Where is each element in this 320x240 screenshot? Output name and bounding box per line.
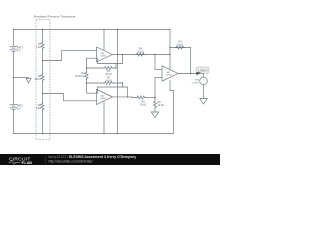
footer bar [0, 154, 220, 165]
wire R4 branch [170, 47, 191, 49]
svg-text:1 kΩ: 1 kΩ [36, 107, 41, 110]
resistor R6 [153, 100, 156, 108]
op-amp OA3 [162, 66, 178, 81]
dashed transducer box [36, 20, 50, 140]
svg-text:VM1: VM1 [195, 80, 200, 82]
resistor R3 [136, 53, 146, 56]
wire long vertical supply [117, 30, 119, 134]
wire R9 to bottom rail [42, 111, 44, 134]
svg-text:http://circuitlab.com/c6nb38e/: http://circuitlab.com/c6nb38e/ [49, 159, 93, 163]
ground GND3 [200, 99, 207, 105]
resistor R8 [41, 74, 44, 82]
op-amp OA2 [97, 89, 113, 104]
wire OA1 inverting from Rg node [87, 58, 97, 68]
wire mid supply to BAT2 [13, 78, 15, 105]
svg-text:10 kΩ: 10 kΩ [140, 103, 147, 106]
svg-text:LM324: LM324 [101, 56, 107, 58]
wire left column top [13, 30, 15, 47]
wire Rg bottom node to R2 [87, 82, 104, 84]
wire R6 to ground [154, 108, 156, 112]
wire bottom rail [14, 133, 174, 135]
wire ground stub mid supply [14, 77, 29, 79]
wire OA2 output [112, 96, 136, 99]
ground GND1 [26, 79, 31, 84]
svg-text:5 V: 5 V [17, 50, 21, 53]
svg-text:1 kΩ: 1 kΩ [36, 46, 41, 49]
svg-text:LAB: LAB [24, 161, 32, 165]
svg-text:5 V: 5 V [17, 108, 21, 111]
wire OA2 inverting from Rg node [87, 83, 97, 93]
wire node B to OA3 non-inverting [155, 77, 162, 97]
resistor R1 [104, 66, 113, 69]
wire transducer top drop [42, 30, 44, 42]
wire to voltmeter [203, 74, 205, 78]
wire R7 to R8 [42, 50, 44, 74]
svg-text:−: − [98, 58, 99, 60]
footer divider [45, 156, 47, 164]
wire OA3 V+ [169, 30, 171, 70]
wire OA1 feedback detour [98, 55, 123, 64]
svg-text:1.768 V: 1.768 V [191, 83, 199, 85]
svg-text:Simulated Pressure Transducer: Simulated Pressure Transducer [34, 15, 76, 19]
wire node B to R6 [154, 98, 156, 101]
voltmeter VM1 [200, 77, 208, 85]
annotation badge 1.768 V [196, 67, 209, 76]
wire OA2 feedback detour [98, 87, 128, 97]
wire OA3 output [178, 73, 204, 75]
wire OA3 V- [170, 81, 174, 134]
svg-text:20.55 kΩ: 20.55 kΩ [75, 75, 85, 78]
svg-text:−: − [98, 93, 99, 95]
junction dots [13, 29, 192, 135]
wire Rg bottom [86, 80, 88, 84]
battery BAT1 [10, 46, 17, 51]
op-amp OA1 [97, 47, 113, 62]
wire tap upper [43, 51, 97, 61]
wire below BAT2 [13, 110, 15, 134]
wire OA1 V+ [103, 30, 105, 51]
wire R8 to R9 [42, 82, 44, 103]
wire R5 to node B [146, 97, 156, 99]
wire R1 to feedback [113, 64, 116, 69]
wire Rg top [86, 68, 88, 72]
resistor R2 [104, 81, 113, 84]
wire node A to OA3 inverting [155, 55, 162, 70]
svg-text:10 kΩ: 10 kΩ [158, 104, 165, 107]
svg-text:kerry12123 / ELE3503 Assesment: kerry12123 / ELE3503 Assesment 3 Kerry O… [49, 155, 137, 159]
svg-text:1.768 V: 1.768 V [198, 69, 208, 73]
CircuitLab logo [9, 156, 33, 165]
wire top rail [14, 29, 171, 31]
wire R4 to output [190, 48, 192, 74]
svg-text:LM324: LM324 [166, 74, 172, 76]
wire below BAT1 [13, 52, 15, 78]
resistor R5 [136, 96, 146, 99]
svg-text:−: − [203, 84, 204, 86]
svg-text:10 kΩ: 10 kΩ [105, 80, 112, 83]
battery BAT2 [10, 104, 17, 109]
svg-text:LM324: LM324 [101, 98, 107, 100]
svg-text:−: − [164, 70, 165, 72]
wire tap lower [43, 94, 97, 101]
wire Rg top node to R1 [87, 67, 104, 69]
svg-text:500 Ω: 500 Ω [35, 78, 42, 81]
svg-text:10 kΩ: 10 kΩ [177, 43, 184, 46]
wire OA2 V- [103, 101, 105, 133]
resistor Rg [85, 72, 88, 80]
wire voltmeter to ground [203, 85, 205, 99]
wire R2 to feedback [113, 83, 123, 87]
resistor R7 [41, 42, 44, 50]
svg-text:10 kΩ: 10 kΩ [137, 50, 144, 53]
ground GND2 [151, 112, 158, 118]
wire OA1 output [112, 54, 170, 56]
resistor R9 [41, 103, 44, 111]
resistor R4 [175, 46, 185, 49]
